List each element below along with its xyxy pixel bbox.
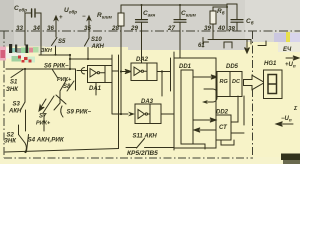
down arrow into DD5 xyxy=(245,40,250,54)
switch S5 blade xyxy=(52,38,58,46)
switch S11 blade xyxy=(137,139,145,149)
DA1 divider xyxy=(104,66,106,83)
DD1 inner tall box xyxy=(181,70,193,144)
switch S8 second blade xyxy=(67,81,74,91)
svg-text:DD1: DD1 xyxy=(179,64,192,70)
svg-text:DA2: DA2 xyxy=(136,57,149,63)
block boundary right inner dash-dot line xyxy=(252,31,254,158)
noise patch gray xyxy=(16,48,21,53)
svg-text:ЗНК: ЗНК xyxy=(6,87,19,93)
switch S4 blade xyxy=(27,135,29,152)
svg-text:АКН: АКН xyxy=(8,109,22,115)
arrow to CT xyxy=(193,118,216,122)
wire DA2 to DA3 xyxy=(161,72,163,97)
yellow lighter strip bottom xyxy=(0,157,300,164)
DA3 wire out xyxy=(161,113,174,115)
DA1 feedback loop xyxy=(70,59,112,65)
display HG1 digit xyxy=(268,75,277,94)
block boundary top dash-dot line xyxy=(0,30,300,32)
DA2 divider xyxy=(146,63,148,81)
svg-text:−Uп: −Uп xyxy=(281,116,292,123)
noise dark streak 2 xyxy=(15,45,17,53)
op-amp DA3 box xyxy=(135,104,161,124)
junction dot DA2 out xyxy=(161,70,163,72)
paper shade right xyxy=(245,0,300,44)
noise dark streak 1 xyxy=(9,44,12,53)
DA3 wire in arrowhead xyxy=(128,112,135,117)
svg-text:HG1: HG1 xyxy=(264,61,277,67)
svg-text:61: 61 xyxy=(198,43,205,49)
svg-text:S5: S5 xyxy=(58,39,66,45)
noise patch green3 xyxy=(12,56,22,62)
wire S8 vertical xyxy=(75,69,77,90)
routed wire from pin39 xyxy=(208,31,251,44)
op-amp DA1 box xyxy=(88,66,113,83)
DA3 wire in xyxy=(121,113,128,115)
capacitor Cb plates xyxy=(231,20,243,23)
recirculation loop upper xyxy=(204,89,217,102)
DD5 divider xyxy=(229,72,231,97)
switch S1 blade xyxy=(11,70,23,78)
pin 36 wire + Uobr plus arrow xyxy=(54,16,57,31)
svg-text:DD2: DD2 xyxy=(216,110,229,116)
svg-text:DD5: DD5 xyxy=(226,64,239,70)
switch S3 blade xyxy=(21,102,26,110)
junction dot S4 xyxy=(24,151,26,153)
pin 40 wire xyxy=(227,4,237,31)
counter DD2 box xyxy=(216,115,231,140)
yellow block tint xyxy=(0,42,300,164)
noise patch bottom right dark xyxy=(281,154,300,161)
paper shade left xyxy=(0,0,14,48)
svg-text:S10: S10 xyxy=(91,37,102,43)
svg-text:DC: DC xyxy=(232,79,241,85)
pin 27 wire into block xyxy=(179,31,181,62)
DA2 wire out xyxy=(157,71,171,73)
DA2 inverter symbol xyxy=(134,67,147,76)
capacitor Cakn wires / pin 29 xyxy=(141,5,143,31)
junction dot pin28-DA3 xyxy=(120,113,122,115)
DA3 inverter symbol xyxy=(138,110,150,119)
wire S10 down xyxy=(88,31,89,59)
S11 wire xyxy=(126,148,174,151)
noise patch white2 xyxy=(6,53,25,59)
svg-text:DA3: DA3 xyxy=(141,99,154,105)
svg-text:S6 РИК−: S6 РИК− xyxy=(44,63,69,69)
svg-text:27: 27 xyxy=(167,25,175,32)
svg-text:S11 АКН: S11 АКН xyxy=(133,134,158,140)
noise patch redpink xyxy=(29,48,33,53)
CT loop wires xyxy=(231,96,244,133)
pin 29 wire into block xyxy=(141,31,143,63)
noise patch top right lavender xyxy=(274,33,292,42)
S9 arc xyxy=(61,106,63,117)
right power arrow top xyxy=(286,56,299,60)
noise white block xyxy=(278,42,300,52)
svg-text:38: 38 xyxy=(228,26,235,33)
wire S3 lower vertical xyxy=(25,110,27,131)
svg-text:DA1: DA1 xyxy=(89,86,102,92)
resistor Rshim body xyxy=(118,13,124,26)
pin 61 wire xyxy=(203,38,209,48)
svg-text:ЕЧ: ЕЧ xyxy=(283,47,292,53)
junction dot pin28-DA2 xyxy=(120,70,122,72)
capacitor Cshim wires / pin 27 xyxy=(179,5,181,31)
noise yellow streak xyxy=(286,32,290,43)
svg-text:S4 АКН,РИК: S4 АКН,РИК xyxy=(28,137,65,144)
svg-text:+Uп: +Uп xyxy=(285,62,296,69)
switch S2 blade xyxy=(19,135,27,152)
left big box right edge xyxy=(118,108,120,149)
noise dark streak 3 xyxy=(26,45,29,54)
pin27 long wire down xyxy=(173,52,175,58)
wire below S8 xyxy=(59,92,61,104)
junction dot box top xyxy=(55,54,57,56)
arrow DD1 to DD5 xyxy=(193,75,217,79)
svg-text:28: 28 xyxy=(111,25,119,32)
bottom row wire xyxy=(5,149,119,153)
S7 converge wires xyxy=(43,95,66,113)
svg-text:−: − xyxy=(82,14,86,20)
wire vertical x170 xyxy=(170,58,172,91)
hollow arrow to HG1 xyxy=(244,75,265,89)
wire S1-S3 vertical xyxy=(24,69,26,102)
logic block DD1 box xyxy=(174,58,216,148)
capacitor Cobr loop wires xyxy=(25,13,41,31)
arrow from CT xyxy=(194,128,216,132)
S6 row wire xyxy=(25,68,76,70)
switch S2 feed xyxy=(18,125,20,135)
noise patch left pink xyxy=(0,47,6,61)
arm arrow left xyxy=(39,99,46,111)
noise patch teal xyxy=(12,48,17,53)
svg-text:29: 29 xyxy=(130,25,138,32)
left box top wire xyxy=(39,47,70,55)
pin 33 wire xyxy=(24,31,26,45)
svg-text:РИК+: РИК+ xyxy=(57,77,72,83)
wire stub hook xyxy=(224,42,232,48)
svg-text:S8: S8 xyxy=(63,84,71,90)
svg-text:ЗКН: ЗКН xyxy=(41,48,53,54)
junction dot S1 xyxy=(24,68,26,70)
block boundary bottom dash-dot line xyxy=(4,157,253,159)
noise patch pale xyxy=(39,47,45,54)
capacitor Cakn plates xyxy=(136,20,148,23)
junction dot bus-27 xyxy=(179,4,181,6)
noise patch green1 xyxy=(21,48,29,54)
junction dot loop xyxy=(69,58,71,60)
DA1 wire in xyxy=(77,70,88,72)
svg-text:34: 34 xyxy=(33,25,40,32)
svg-text:40: 40 xyxy=(217,25,225,32)
noise patch mint xyxy=(25,57,35,63)
capacitor Cshim plates xyxy=(174,20,186,23)
svg-text:РИК+: РИК+ xyxy=(36,121,51,127)
wire into DD5 top xyxy=(243,96,245,125)
svg-text:ЗНК: ЗНК xyxy=(4,139,17,145)
wire S5 down xyxy=(55,31,58,55)
svg-text:СТ: СТ xyxy=(219,125,228,131)
capacitor Cb wires / pin 38 xyxy=(236,4,238,31)
DA1 inverter symbol xyxy=(90,69,105,78)
svg-text:39: 39 xyxy=(204,25,211,32)
resistor Rb body xyxy=(210,11,216,24)
DA1 wire out xyxy=(112,55,121,114)
junction dot box top right xyxy=(69,54,71,56)
pin 28 wire into block xyxy=(120,31,122,114)
wire CT bottom loop xyxy=(193,140,234,149)
DA3 divider xyxy=(149,104,151,124)
wire S7 bottom vertical xyxy=(43,114,45,131)
switch S8 blade xyxy=(60,81,66,92)
pin 35 wire + Uobr minus arrow xyxy=(87,16,90,31)
switch S6 blade xyxy=(52,69,58,79)
noise patch white1 xyxy=(6,48,12,54)
wire from S6 node down xyxy=(69,55,71,69)
noise patch top right pale xyxy=(290,33,300,47)
display HG1 outer xyxy=(264,70,283,99)
wire right of DA1 xyxy=(118,55,120,108)
pin 28 wire xyxy=(120,5,122,31)
DA1 input hook xyxy=(81,68,84,74)
svg-text:КР5/2ПВ5: КР5/2ПВ5 xyxy=(127,150,158,157)
pin 34 wire xyxy=(40,31,42,47)
svg-text:33: 33 xyxy=(16,25,23,32)
svg-text:АКН: АКН xyxy=(91,44,105,50)
noise red specks xyxy=(18,56,32,63)
svg-text:S3: S3 xyxy=(13,102,21,108)
supply hook right xyxy=(258,41,266,46)
resistor Rb wires / pin 39 xyxy=(213,7,227,31)
DA1 wire below xyxy=(95,83,97,96)
junction dot S10-loop xyxy=(87,58,89,60)
recirculation loop arrowhead xyxy=(202,100,208,104)
svg-text:36: 36 xyxy=(47,25,54,32)
noise patch left red core xyxy=(1,50,6,58)
svg-text:S7: S7 xyxy=(39,114,47,120)
switch S10 blade xyxy=(85,38,90,46)
S1 row wire xyxy=(6,68,25,70)
top bus wire xyxy=(121,4,227,6)
paper background top strip xyxy=(0,0,300,52)
noise patch green2 xyxy=(33,47,39,53)
block boundary left dash-dot line xyxy=(3,31,5,158)
junction dot bus-29 xyxy=(141,4,143,6)
svg-text:+: + xyxy=(59,15,63,21)
noise patch bottom right lower xyxy=(283,160,300,164)
junction dot S6 xyxy=(69,68,71,70)
svg-text:S1: S1 xyxy=(10,80,18,86)
svg-text:RG: RG xyxy=(220,79,229,85)
right power arrow bottom xyxy=(276,122,293,127)
junction dot bus-40 xyxy=(226,6,228,8)
capacitor Cobr plates xyxy=(32,9,35,17)
DA2 wire in xyxy=(121,69,131,73)
op-amp DA2 box xyxy=(131,63,157,81)
svg-text:S9 РИК−: S9 РИК− xyxy=(67,110,92,116)
register DD5 box xyxy=(217,72,242,97)
svg-text:35: 35 xyxy=(84,25,91,32)
